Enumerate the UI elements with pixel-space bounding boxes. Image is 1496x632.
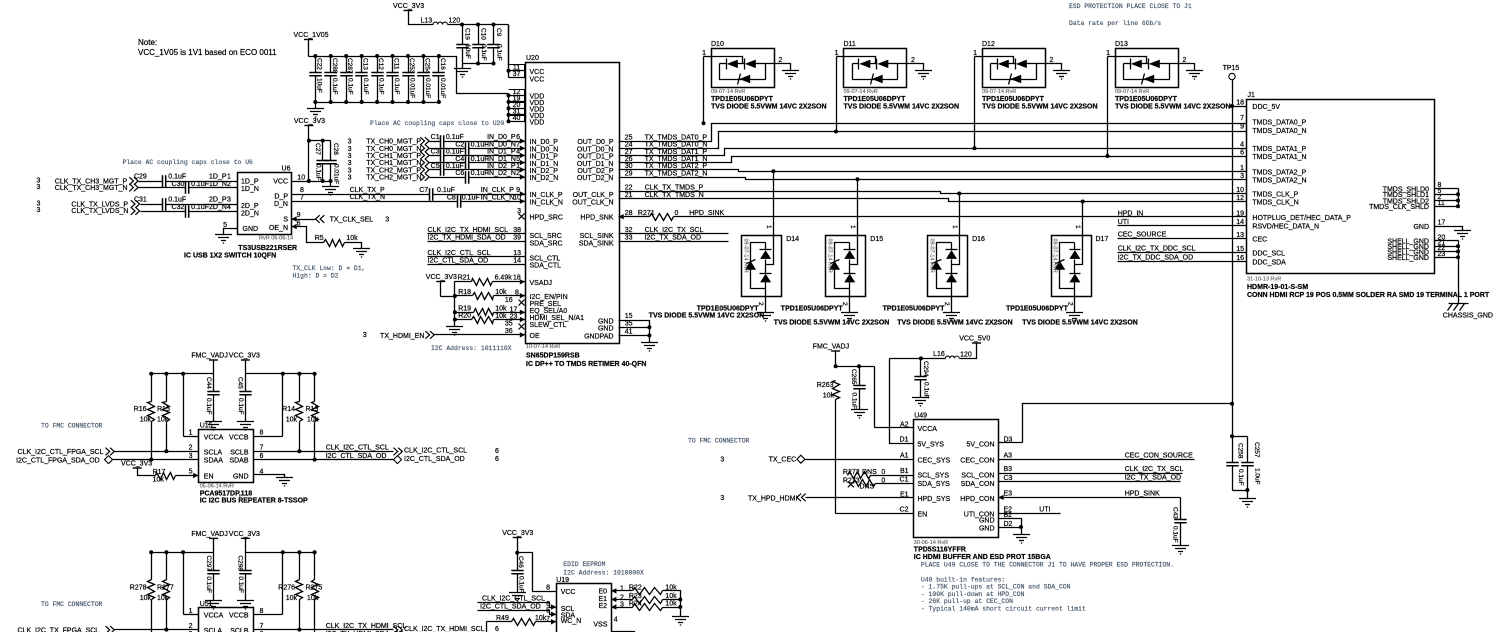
- svg-text:VCC_5V0: VCC_5V0: [959, 336, 990, 343]
- U6 GND pin 5: [223, 222, 237, 235]
- capacitor C27: [314, 141, 329, 184]
- capacitor C11: [386, 57, 400, 103]
- svg-text:VCC_3V3: VCC_3V3: [121, 461, 152, 468]
- note TX_CLK teal: [293, 265, 366, 280]
- svg-text:Place AC coupling caps close t: Place AC coupling caps close to U6: [123, 159, 254, 166]
- svg-text:39: 39: [513, 234, 521, 241]
- svg-text:C30: C30: [172, 181, 185, 188]
- svg-text:TX_HPD_HDMI: TX_HPD_HDMI: [748, 496, 797, 503]
- svg-text:SDA_SRC: SDA_SRC: [530, 240, 563, 247]
- svg-text:10k: 10k: [140, 595, 152, 602]
- svg-text:TS3USB221RSER: TS3USB221RSER: [238, 245, 297, 252]
- svg-text:VDD: VDD: [530, 120, 545, 127]
- svg-text:TPD1E05U06DPYT: TPD1E05U06DPYT: [982, 96, 1045, 103]
- power flag VCC_1V05: [294, 32, 329, 57]
- net CLK_I2C_CTL_SCL to U20: [428, 250, 561, 262]
- capacitor C12: [371, 57, 384, 103]
- svg-text:TMDS_CLK_P: TMDS_CLK_P: [1252, 192, 1298, 199]
- net TX_TMDS_DAT1_N: [619, 156, 1247, 163]
- svg-text:10k: 10k: [140, 417, 152, 424]
- resistor R276 10k: [278, 553, 302, 632]
- capacitor C13: [355, 57, 369, 103]
- svg-text:R18: R18: [458, 289, 471, 296]
- ground (U6): [215, 235, 232, 244]
- svg-text:I2C_TX_HDMI_SDA_OD: I2C_TX_HDMI_SDA_OD: [428, 234, 506, 241]
- net TX_TMDS_DAT0_N: [619, 132, 1247, 149]
- net I2C_CTL_FPGA_SDA_OD input: [16, 456, 198, 465]
- svg-text:GND: GND: [243, 226, 259, 233]
- svg-text:SHELL_GND: SHELL_GND: [1387, 255, 1429, 262]
- svg-text:1D_P: 1D_P: [241, 179, 259, 186]
- svg-text:CLK_TX_N: CLK_TX_N: [350, 194, 385, 201]
- net CLK_I2C_TX_HDMI_SCL: [428, 227, 562, 240]
- svg-text:- Typical 140mA short circuit: - Typical 140mA short circuit current li…: [921, 605, 1086, 612]
- svg-text:R16: R16: [134, 406, 147, 413]
- U20 pin IN_D2_N name: [530, 175, 559, 182]
- svg-text:3: 3: [348, 153, 352, 160]
- capacitor C30: [172, 181, 238, 194]
- svg-text:TX_CH1_MGT_N: TX_CH1_MGT_N: [366, 160, 421, 167]
- svg-text:I2C_CTL_FPGA_SDA_OD: I2C_CTL_FPGA_SDA_OD: [16, 457, 100, 464]
- svg-text:C297: C297: [205, 555, 212, 571]
- svg-text:A2: A2: [900, 421, 909, 428]
- svg-text:C12: C12: [377, 58, 384, 70]
- U49 pin names: [918, 426, 995, 533]
- note I2C Address 1010000X: [563, 570, 644, 577]
- svg-text:C6: C6: [455, 170, 464, 177]
- ground (C27 C28): [322, 187, 339, 196]
- svg-text:C45: C45: [237, 377, 244, 389]
- svg-text:9: 9: [1240, 124, 1244, 131]
- svg-text:OUT_D1_P: OUT_D1_P: [577, 154, 614, 161]
- svg-text:TX_TMDS_DAT0_P: TX_TMDS_DAT0_P: [645, 134, 708, 141]
- svg-text:C257: C257: [1253, 442, 1260, 458]
- svg-text:TMDS_DATA2_N: TMDS_DATA2_N: [1252, 177, 1306, 184]
- svg-text:D13: D13: [1115, 41, 1128, 48]
- capacitor C258 0.1uF: [1226, 437, 1244, 491]
- svg-text:0.1uF: 0.1uF: [1172, 526, 1179, 543]
- capacitor C45 0.1uF: [237, 374, 252, 422]
- svg-text:6: 6: [495, 626, 499, 632]
- svg-text:10-07-14 RvR: 10-07-14 RvR: [526, 344, 560, 350]
- svg-text:WC_N: WC_N: [561, 618, 582, 625]
- svg-text:0.1uF: 0.1uF: [446, 149, 464, 156]
- svg-text:29: 29: [625, 170, 633, 177]
- resistor R49 10k: [487, 615, 557, 632]
- svg-text:C3: C3: [1004, 475, 1013, 482]
- svg-text:0.1uF: 0.1uF: [205, 576, 212, 593]
- svg-text:09-07-14 RvR: 09-07-14 RvR: [982, 89, 1016, 95]
- svg-text:CHASSIS_GND: CHASSIS_GND: [1443, 313, 1493, 320]
- svg-text:09-07-14 RvR: 09-07-14 RvR: [928, 239, 934, 273]
- svg-text:25: 25: [625, 134, 633, 141]
- svg-text:OUT_D2_N: OUT_D2_N: [577, 175, 614, 182]
- svg-text:6: 6: [495, 448, 499, 455]
- svg-text:3: 3: [1240, 173, 1244, 180]
- net TX_TMDS_DAT2_P: [619, 163, 1247, 171]
- svg-text:TX_CH2_MGT_N: TX_CH2_MGT_N: [366, 175, 421, 182]
- svg-text:SDA_CON: SDA_CON: [961, 481, 995, 488]
- svg-text:IN_D0_N: IN_D0_N: [487, 141, 516, 148]
- net TX_CEC input: [720, 455, 913, 463]
- svg-text:R277: R277: [157, 584, 174, 591]
- svg-text:6: 6: [1240, 150, 1244, 157]
- svg-text:1: 1: [189, 608, 193, 615]
- svg-text:VCC_3V3: VCC_3V3: [229, 353, 260, 360]
- U20 VCC pin names: [530, 69, 545, 84]
- svg-text:CLK_I2C_CTL_SCL: CLK_I2C_CTL_SCL: [404, 448, 467, 455]
- svg-text:RvR 06-06-14: RvR 06-06-14: [259, 236, 293, 242]
- svg-text:18: 18: [1236, 100, 1244, 107]
- svg-text:17: 17: [1438, 220, 1446, 227]
- svg-text:C28: C28: [332, 143, 339, 155]
- resistor R263 10k: [817, 381, 914, 514]
- svg-text:HPD_SNK: HPD_SNK: [580, 215, 613, 222]
- svg-text:0.1uF: 0.1uF: [480, 44, 487, 61]
- capacitor C298 0.1uF: [237, 553, 252, 601]
- svg-text:3: 3: [348, 167, 352, 174]
- capacitor C31: [134, 197, 238, 211]
- svg-text:CLK_I2C_CTL_SCL: CLK_I2C_CTL_SCL: [326, 445, 389, 452]
- ground (cap bank): [307, 109, 324, 118]
- svg-text:IN_D2_P: IN_D2_P: [487, 163, 516, 170]
- svg-text:0.1uF: 0.1uF: [923, 382, 930, 399]
- svg-text:120: 120: [960, 352, 972, 359]
- svg-text:L16: L16: [933, 351, 945, 358]
- svg-text:C27: C27: [314, 143, 321, 155]
- svg-text:24: 24: [625, 142, 633, 149]
- svg-text:OUT_D0_P: OUT_D0_P: [577, 139, 614, 146]
- svg-text:0.1uF: 0.1uF: [314, 164, 321, 181]
- svg-text:TX_CH1_MGT_P: TX_CH1_MGT_P: [366, 153, 421, 160]
- svg-text:6: 6: [516, 134, 520, 141]
- svg-text:1: 1: [516, 163, 520, 170]
- svg-text:IN_D1_N: IN_D1_N: [487, 156, 516, 163]
- ground (C44): [205, 422, 222, 431]
- resistor R272 0 DNS: [843, 469, 914, 479]
- svg-text:0.1uF: 0.1uF: [347, 78, 354, 95]
- svg-text:TVS DIODE 5.5VWM 14VC 2X2SON: TVS DIODE 5.5VWM 14VC 2X2SON: [711, 104, 827, 111]
- svg-text:GND: GND: [598, 319, 614, 326]
- svg-text:0.1uF: 0.1uF: [851, 393, 858, 410]
- svg-text:- 1.75K pull-ups at SCL_CON an: - 1.75K pull-ups at SCL_CON and SDA_CON: [921, 584, 1071, 591]
- net I2C_CTL_SDA_OD output: [254, 453, 500, 464]
- svg-text:0.1uF: 0.1uF: [237, 576, 244, 593]
- svg-text:TX_CLK_SEL: TX_CLK_SEL: [330, 217, 374, 224]
- svg-text:IN_CLK_P: IN_CLK_P: [530, 192, 563, 199]
- capacitor C265 0.1uF: [850, 367, 866, 410]
- svg-text:7: 7: [300, 195, 304, 202]
- net I2C_CTL_SDA_OD to U19: [478, 603, 557, 617]
- svg-text:0.1uF: 0.1uF: [191, 204, 209, 211]
- svg-text:VSS: VSS: [593, 621, 607, 628]
- TVS diode D15: [774, 177, 890, 326]
- capacitor C29: [134, 174, 238, 188]
- wire cap bank bottom bus: [313, 100, 441, 109]
- svg-text:C29: C29: [134, 174, 147, 181]
- svg-text:I2C Address: 1010000X: I2C Address: 1010000X: [563, 570, 644, 577]
- svg-text:TMDS_DATA1_P: TMDS_DATA1_P: [1252, 146, 1306, 153]
- capacitor C288: [324, 57, 338, 103]
- svg-text:C254: C254: [423, 58, 430, 74]
- power flag VCC_3V3 (U51): [229, 531, 260, 553]
- U19 pin names: [546, 584, 624, 628]
- net CLK_TX_CH3_MGT_N input: [37, 184, 186, 192]
- note ESD PROTECTION PLACE CLOSE TO J1: [1069, 3, 1192, 10]
- svg-text:0.1uF: 0.1uF: [393, 78, 400, 95]
- net CEC_CON_SOURCE wire: [999, 452, 1195, 459]
- svg-text:10k: 10k: [286, 595, 298, 602]
- power flag VCC_3V3 (U6): [294, 118, 325, 183]
- svg-text:HPD_SINK: HPD_SINK: [1125, 491, 1160, 498]
- note TO FMC CONNECTOR (U49): [688, 438, 750, 445]
- svg-text:Place AC coupling caps close t: Place AC coupling caps close to U20: [370, 120, 504, 127]
- svg-text:3: 3: [37, 184, 41, 191]
- net CLK_TX_LVDS_N input: [37, 207, 186, 215]
- wire TP15 DDC_5V vertical: [1230, 80, 1234, 437]
- capacitor C22: [309, 57, 322, 103]
- svg-text:09-07-14 RvR: 09-07-14 RvR: [711, 89, 745, 95]
- svg-text:CLK_I2C_CTL_SCL: CLK_I2C_CTL_SCL: [482, 596, 545, 603]
- svg-text:SN65DP159RSB: SN65DP159RSB: [526, 353, 580, 360]
- svg-text:C44: C44: [205, 377, 212, 389]
- net CLK_I2C_CTL_SCL output: [254, 445, 500, 456]
- resistor R15 10k: [157, 374, 170, 454]
- svg-text:C258: C258: [1237, 443, 1244, 459]
- svg-text:2: 2: [1183, 57, 1187, 64]
- svg-text:R23: R23: [629, 593, 642, 600]
- svg-text:E3: E3: [1004, 491, 1013, 498]
- chassis ground symbol: [1443, 304, 1493, 320]
- svg-text:C32: C32: [172, 204, 185, 211]
- svg-text:E2: E2: [598, 603, 607, 610]
- svg-text:VCC_3V3: VCC_3V3: [294, 118, 325, 125]
- ground (top caps): [454, 69, 471, 78]
- svg-text:1: 1: [702, 50, 706, 57]
- U51 pin names: [189, 608, 264, 632]
- svg-text:TPD1E05U06DPYT: TPD1E05U06DPYT: [883, 306, 946, 313]
- svg-text:CEC: CEC: [1252, 237, 1267, 244]
- svg-text:10k: 10k: [153, 477, 165, 484]
- svg-text:05-06-14 RvR: 05-06-14 RvR: [200, 484, 234, 490]
- svg-text:C31: C31: [134, 197, 147, 204]
- svg-text:TX_CLK Low: D = D1,: TX_CLK Low: D = D1,: [293, 265, 366, 272]
- capacitor C287: [340, 57, 353, 103]
- svg-text:1: 1: [1106, 50, 1110, 57]
- svg-text:C46: C46: [517, 556, 524, 568]
- ground (U20): [641, 343, 658, 352]
- svg-text:13: 13: [513, 250, 521, 257]
- svg-text:CLK_TX_TMDS_N: CLK_TX_TMDS_N: [645, 192, 704, 199]
- svg-text:TX_HDMI_EN: TX_HDMI_EN: [380, 333, 424, 340]
- net CLK_TX_TMDS_P: [619, 185, 1247, 194]
- svg-text:D11: D11: [844, 41, 856, 48]
- resistor R17 10k: [153, 469, 199, 484]
- wire VCC_3V3 rail (U51): [246, 550, 317, 614]
- net CLK_TX_CH3_MGT_P input: [37, 177, 163, 185]
- svg-text:R19: R19: [458, 306, 471, 313]
- svg-text:CLK_I2C_TX_HDMI_SCL: CLK_I2C_TX_HDMI_SCL: [404, 626, 485, 632]
- svg-text:5: 5: [189, 469, 193, 476]
- wire VCC_3V3 rail (U15): [246, 372, 317, 437]
- svg-text:GND: GND: [598, 326, 614, 333]
- svg-text:33: 33: [625, 234, 633, 241]
- note U49 built-in features: [921, 577, 1086, 613]
- svg-text:FMC_VADJ: FMC_VADJ: [191, 531, 227, 538]
- note TO FMC CONNECTOR (U51): [41, 601, 103, 608]
- TVS diode D14: [649, 169, 799, 321]
- svg-text:SCLA: SCLA: [204, 449, 223, 456]
- svg-text:C5: C5: [431, 163, 440, 170]
- svg-text:C1: C1: [900, 477, 909, 484]
- svg-text:E1: E1: [598, 596, 607, 603]
- note Place AC coupling caps close to U20: [370, 120, 504, 127]
- svg-text:VCCB: VCCB: [229, 613, 249, 620]
- svg-text:7: 7: [260, 445, 264, 452]
- TVS diode D12: [973, 41, 1098, 150]
- svg-text:C9: C9: [495, 28, 502, 37]
- net TX_CH0_MGT_P input: [348, 137, 441, 145]
- svg-text:3: 3: [348, 146, 352, 153]
- svg-text:I2C_CTL_SDA_OD: I2C_CTL_SDA_OD: [480, 603, 541, 610]
- net TX_CH2_MGT_P input: [348, 166, 441, 174]
- U49 GND pins wire: [999, 519, 1024, 535]
- svg-text:U49: U49: [914, 413, 927, 420]
- svg-text:5: 5: [516, 156, 520, 163]
- svg-text:HPD_IN: HPD_IN: [1118, 211, 1144, 218]
- svg-text:7: 7: [1240, 115, 1244, 122]
- svg-text:TX_TMDS_DAT2_N: TX_TMDS_DAT2_N: [645, 170, 708, 177]
- resistor R23 10k: [611, 593, 682, 604]
- U20 SCL_SINK SDA_SINK names: [579, 233, 614, 247]
- svg-text:0.1uF: 0.1uF: [331, 78, 338, 95]
- wire strap bus vertical: [453, 282, 457, 327]
- svg-text:18: 18: [513, 275, 521, 282]
- svg-text:R278: R278: [130, 584, 147, 591]
- net HPD_IN label: [1118, 211, 1144, 218]
- ground (R5): [353, 249, 370, 258]
- svg-text:1: 1: [849, 225, 856, 229]
- svg-text:SDA_CTL: SDA_CTL: [530, 263, 562, 270]
- ground (C265): [851, 410, 868, 419]
- svg-text:IN_D1_N: IN_D1_N: [530, 161, 559, 168]
- svg-text:TPD1E05U06DPYT: TPD1E05U06DPYT: [781, 306, 844, 313]
- IC U19 EEPROM box: [556, 577, 611, 632]
- svg-text:VCC_3V3: VCC_3V3: [502, 530, 533, 537]
- resistor R18 10k: [455, 289, 568, 301]
- resistor R22 10k: [611, 585, 680, 617]
- svg-text:IN_CLK_N: IN_CLK_N: [530, 200, 563, 207]
- svg-text:OUT_D1_N: OUT_D1_N: [577, 161, 614, 168]
- capacitor C4 0.1uF: [455, 156, 525, 169]
- wire U6 VCC pin10 rail: [292, 182, 331, 187]
- svg-text:IN_D0_P: IN_D0_P: [487, 134, 516, 141]
- net CLK_I2C_TX_FPGA_SCL input: [18, 626, 199, 632]
- svg-text:0.1uF: 0.1uF: [437, 187, 455, 194]
- svg-text:C3: C3: [431, 149, 440, 156]
- svg-text:6.49k: 6.49k: [495, 274, 513, 281]
- svg-text:CEC_CON: CEC_CON: [960, 458, 994, 465]
- U6 pin S TX_CLK_SEL: [292, 212, 390, 224]
- svg-text:DDC_5V: DDC_5V: [1252, 104, 1280, 111]
- svg-text:TO FMC CONNECTOR: TO FMC CONNECTOR: [41, 423, 103, 430]
- svg-text:3: 3: [720, 495, 724, 502]
- svg-text:C19: C19: [463, 28, 470, 40]
- svg-text:CLK_I2C_TX_SCL: CLK_I2C_TX_SCL: [1125, 466, 1184, 473]
- svg-text:SCLA: SCLA: [204, 628, 223, 632]
- svg-text:D17: D17: [1096, 236, 1109, 243]
- svg-text:DNS: DNS: [860, 483, 875, 490]
- svg-text:TMDS_DATA0_P: TMDS_DATA0_P: [1252, 120, 1306, 127]
- svg-text:8: 8: [260, 430, 264, 437]
- net I2C_TX_DDC_SDA_OD wire: [1118, 255, 1247, 262]
- capacitor C9: [487, 25, 502, 64]
- svg-text:GND: GND: [233, 474, 249, 481]
- svg-text:VCC: VCC: [530, 69, 545, 76]
- svg-text:R14: R14: [282, 406, 295, 413]
- svg-text:10k: 10k: [823, 393, 835, 400]
- wire cap bank to U20 VDD bus: [439, 57, 509, 94]
- resistor R16 10k: [134, 374, 155, 462]
- J1 part text: [1247, 277, 1490, 300]
- U15 GND pin wire: [254, 475, 285, 478]
- ground (C294): [912, 398, 929, 407]
- svg-text:IN_D1_P: IN_D1_P: [530, 154, 559, 161]
- svg-text:5V_CON: 5V_CON: [966, 442, 994, 449]
- svg-text:U6: U6: [282, 166, 291, 173]
- svg-text:PRE_SEL: PRE_SEL: [530, 301, 562, 308]
- svg-text:S: S: [283, 217, 288, 224]
- svg-text:120: 120: [449, 18, 461, 25]
- svg-text:IN_D1_P: IN_D1_P: [487, 149, 516, 156]
- net TX_TMDS_DAT0_P: [619, 124, 1247, 142]
- svg-text:C298: C298: [237, 555, 244, 571]
- svg-text:EDID EEPROM: EDID EEPROM: [563, 561, 605, 568]
- resistor R20 10k: [455, 313, 585, 324]
- svg-text:40: 40: [513, 115, 521, 122]
- capacitor C43 0.1uF: [1171, 498, 1186, 546]
- svg-text:R5: R5: [315, 235, 324, 242]
- svg-text:12: 12: [1236, 195, 1244, 202]
- svg-text:IN_D2_N: IN_D2_N: [530, 175, 559, 182]
- svg-text:2D_N: 2D_N: [241, 211, 259, 218]
- svg-text:0.1uF: 0.1uF: [377, 78, 384, 95]
- svg-text:38: 38: [513, 227, 521, 234]
- svg-text:C287: C287: [346, 58, 353, 74]
- svg-text:TMDS_CLK_SHLD: TMDS_CLK_SHLD: [1369, 204, 1429, 211]
- svg-text:10uF: 10uF: [464, 44, 471, 59]
- svg-text:TX_CH0_MGT_P: TX_CH0_MGT_P: [366, 139, 421, 146]
- svg-text:3: 3: [363, 332, 367, 339]
- svg-text:J1: J1: [1248, 92, 1256, 99]
- svg-text:09-07-14 RvR: 09-07-14 RvR: [844, 89, 878, 95]
- svg-text:TX_TMDS_DAT0_N: TX_TMDS_DAT0_N: [645, 142, 708, 149]
- svg-text:HPD_CON: HPD_CON: [960, 496, 994, 503]
- ground (C46): [509, 593, 526, 602]
- svg-text:GND: GND: [1413, 224, 1429, 231]
- svg-text:TPD1E05U06DPYT: TPD1E05U06DPYT: [711, 96, 774, 103]
- svg-text:3: 3: [720, 457, 724, 464]
- svg-text:2D_N: 2D_N: [209, 204, 227, 211]
- svg-text:2: 2: [1050, 57, 1054, 64]
- svg-text:D16: D16: [972, 236, 985, 243]
- svg-text:8: 8: [300, 187, 304, 194]
- svg-text:TMDS_DATA1_N: TMDS_DATA1_N: [1252, 154, 1306, 161]
- U20 pin IN_CLK names: [530, 192, 563, 206]
- U20 pin HPD_SRC no-connect: [517, 208, 563, 222]
- svg-text:0.1uF: 0.1uF: [168, 174, 186, 181]
- ground (C45): [237, 422, 254, 431]
